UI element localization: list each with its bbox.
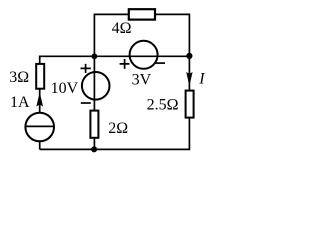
svg-text:3Ω: 3Ω: [9, 69, 29, 86]
svg-text:1A: 1A: [10, 94, 30, 111]
junction dot right (node at I branch top): [186, 53, 192, 59]
current source bar: [26, 125, 54, 127]
current source arrow (up): [37, 93, 43, 106]
resistor 3ohm (left vertical): [36, 64, 44, 89]
wire top-loop right vertical: [188, 14, 190, 57]
svg-text:4Ω: 4Ω: [112, 20, 132, 37]
current I arrow (down): [187, 72, 193, 85]
minus sign of 3V source: [155, 62, 165, 64]
plus sign of 10V source: [81, 64, 91, 73]
svg-text:2.5Ω: 2.5Ω: [147, 97, 179, 114]
wire left branch lower vertical: [39, 141, 41, 149]
plus sign of 3V source: [120, 59, 130, 69]
voltage source U1 10V circle: [82, 72, 110, 100]
current source 1A circle: [25, 113, 54, 142]
wire left branch upper vertical: [39, 56, 41, 113]
svg-text:10V: 10V: [51, 80, 79, 97]
resistor 2.5ohm (right vertical): [186, 91, 194, 118]
minus sign of 10V source: [81, 102, 91, 104]
junction dot bottom (node at 2 ohm bottom): [91, 146, 97, 152]
wire right branch vertical: [188, 56, 190, 150]
wire top-loop left vertical: [93, 14, 95, 57]
wire bottom horizontal: [40, 148, 190, 150]
resistor 4ohm (top horizontal): [129, 9, 155, 19]
svg-text:I: I: [198, 70, 205, 87]
wire middle branch vertical (through 10V source down to 2 ohm): [93, 56, 95, 149]
svg-text:3V: 3V: [132, 71, 152, 88]
wire middle horizontal left part: [40, 55, 95, 57]
resistor 2ohm (middle vertical): [90, 111, 98, 138]
svg-text:2Ω: 2Ω: [108, 120, 128, 137]
wire top horizontal: [94, 13, 189, 15]
voltage source U2 3V circle: [130, 41, 158, 69]
junction dot middle (node at 10V branch top): [92, 53, 98, 59]
wire middle horizontal right part (through 3V source): [94, 55, 189, 57]
